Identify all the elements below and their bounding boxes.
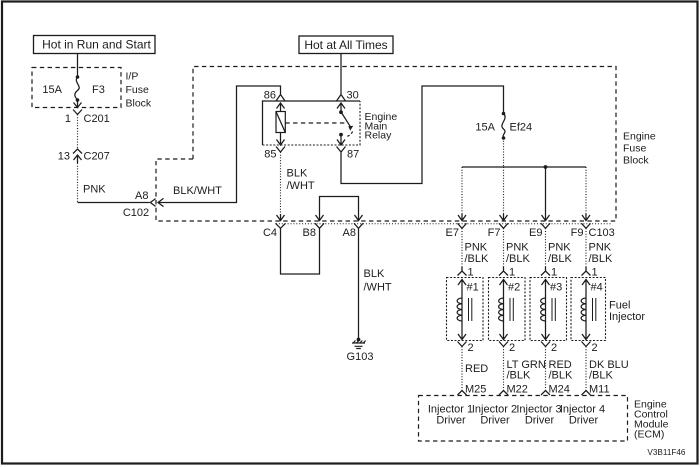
ground G103	[347, 338, 374, 363]
wire BLK/WHT from C102 to relay pin 86	[158, 86, 281, 203]
svg-text:Ef24: Ef24	[510, 122, 533, 134]
wire Hot at All Times to relay pin 30	[340, 54, 342, 95]
fuse Ef24 15A	[475, 112, 532, 140]
svg-text:I/P: I/P	[126, 71, 139, 83]
ECM pins M25 M22 M24 M11	[458, 384, 610, 396]
svg-text:PNK: PNK	[589, 242, 612, 254]
svg-text:Driver: Driver	[569, 415, 599, 427]
arrow into C102 at C4	[277, 214, 285, 221]
jumper wire B8 to A8 above connector	[316, 197, 363, 221]
svg-text:E9: E9	[529, 227, 542, 239]
label Engine Control Module (ECM)	[634, 399, 669, 441]
svg-text:2: 2	[509, 342, 515, 354]
svg-text:Fuse: Fuse	[126, 84, 150, 96]
svg-text:2: 2	[468, 342, 474, 354]
wire C201 to C207	[77, 115, 79, 150]
svg-text:C4: C4	[263, 227, 277, 239]
connector C102 pin C4 socket	[263, 223, 286, 239]
svg-text:#1: #1	[467, 282, 479, 294]
svg-text:Driver: Driver	[480, 415, 510, 427]
svg-text:A8: A8	[343, 227, 356, 239]
svg-text:Hot in Run and Start: Hot in Run and Start	[42, 38, 151, 52]
bus wire	[462, 166, 586, 168]
wire BLK/WHT relay 85 down to C4	[280, 152, 282, 215]
svg-text:PNK: PNK	[465, 242, 488, 254]
svg-text:15A: 15A	[42, 84, 62, 96]
svg-text:/BLK: /BLK	[549, 370, 574, 382]
wire fuse to bus	[503, 138, 505, 167]
svg-text:C201: C201	[84, 113, 110, 125]
svg-text:/WHT: /WHT	[364, 282, 392, 294]
wire drop E9	[542, 167, 550, 221]
I/P Fuse Block box	[32, 68, 152, 110]
svg-text:/BLK: /BLK	[589, 370, 614, 382]
svg-text:15A: 15A	[475, 122, 495, 134]
svg-text:1: 1	[65, 113, 71, 125]
svg-text:/WHT: /WHT	[287, 180, 315, 192]
relay coil	[276, 112, 285, 133]
svg-text:Driver: Driver	[436, 415, 466, 427]
svg-text:PNK: PNK	[548, 242, 571, 254]
svg-text:RED: RED	[465, 363, 488, 375]
svg-text:#3: #3	[550, 282, 562, 294]
svg-text:13: 13	[58, 151, 70, 163]
svg-text:E7: E7	[446, 227, 459, 239]
svg-text:Hot at All Times: Hot at All Times	[304, 38, 387, 52]
svg-text:Driver: Driver	[525, 415, 555, 427]
svg-text:B8: B8	[303, 227, 316, 239]
wire drop E7	[461, 167, 463, 214]
fuel injector #4	[571, 278, 606, 341]
injector pins 1	[458, 267, 598, 279]
svg-text:#2: #2	[508, 282, 520, 294]
connector C102 pin A8 socket (ground path)	[343, 223, 363, 239]
svg-text:C103: C103	[589, 227, 615, 239]
svg-text:/BLK: /BLK	[465, 253, 490, 265]
svg-text:G103: G103	[347, 351, 374, 363]
svg-text:#4: #4	[591, 282, 603, 294]
svg-text:M22: M22	[507, 384, 528, 396]
svg-text:Engine: Engine	[623, 131, 656, 143]
Engine Fuse Block outline	[156, 67, 656, 224]
svg-text:V3B11F46: V3B11F46	[647, 448, 686, 457]
relay pin 87	[337, 135, 360, 161]
svg-text:87: 87	[347, 149, 359, 161]
svg-text:30: 30	[347, 90, 359, 102]
svg-text:/BLK: /BLK	[507, 370, 532, 382]
fuel injector #1	[447, 278, 484, 341]
wire drop F9	[585, 167, 587, 214]
svg-text:Relay: Relay	[365, 130, 393, 142]
relay pin 85	[264, 133, 285, 161]
fuse F3 15A	[42, 75, 104, 107]
svg-text:Fuel: Fuel	[609, 300, 630, 312]
fuel injector #3	[530, 278, 567, 341]
svg-text:1: 1	[551, 267, 557, 279]
svg-text:/BLK: /BLK	[548, 253, 573, 265]
svg-text:2: 2	[551, 342, 557, 354]
svg-text:M25: M25	[465, 384, 486, 396]
relay pin 30 and switch	[337, 90, 359, 137]
fuel injector #2	[489, 278, 526, 341]
svg-text:F3: F3	[92, 84, 105, 96]
svg-text:Fuse: Fuse	[623, 143, 647, 155]
svg-text:85: 85	[264, 149, 276, 161]
svg-text:2: 2	[592, 342, 598, 354]
svg-text:1: 1	[592, 267, 598, 279]
wire drop F7	[503, 167, 505, 214]
svg-text:A8: A8	[135, 190, 148, 202]
wire relay 87 to fuse Ef24	[341, 86, 504, 184]
connector C102 pin A8 (double arrows)	[123, 190, 164, 219]
injector pins 2	[458, 342, 598, 355]
wires injectors to ECM	[462, 347, 629, 391]
svg-text:1: 1	[468, 267, 474, 279]
power tag: Hot at All Times	[299, 36, 393, 54]
wire PNK horizontal	[78, 202, 150, 204]
svg-text:BLK: BLK	[287, 168, 308, 180]
ECM box	[419, 396, 628, 442]
svg-text:Block: Block	[623, 155, 649, 167]
wire PNK vertical	[77, 163, 79, 203]
svg-text:F9: F9	[571, 227, 584, 239]
svg-text:Injector: Injector	[609, 311, 645, 323]
svg-text:C102: C102	[123, 207, 149, 219]
connector C201 pin 1	[65, 110, 110, 126]
relay pin 86	[264, 90, 285, 112]
connector C102 pin B8 socket	[303, 223, 324, 239]
svg-text:(ECM): (ECM)	[634, 429, 664, 441]
connector C103 sockets E7 F7 E9 F9	[446, 223, 615, 239]
svg-text:F7: F7	[488, 227, 501, 239]
svg-text:BLK: BLK	[364, 268, 385, 280]
wire from Hot in Run and Start to fuse F3	[77, 54, 79, 78]
power tag: Hot in Run and Start	[34, 36, 156, 54]
svg-text:M24: M24	[549, 384, 570, 396]
svg-text:/BLK: /BLK	[506, 253, 531, 265]
svg-text:PNK: PNK	[83, 184, 106, 196]
svg-text:86: 86	[264, 90, 276, 102]
junction node	[544, 165, 548, 169]
svg-text:Block: Block	[126, 98, 152, 110]
connector C207 pin 13	[58, 149, 110, 163]
wire BLK/WHT to ground	[358, 228, 360, 339]
wire C4 to B8 below connector	[281, 228, 320, 274]
wires PNK/BLK to injectors	[462, 228, 613, 270]
relay link dashed line	[285, 122, 348, 124]
svg-text:M11: M11	[589, 384, 610, 396]
relay U: Engine Main Relay box	[263, 101, 398, 145]
svg-text:PNK: PNK	[506, 242, 529, 254]
svg-text:BLK/WHT: BLK/WHT	[173, 185, 222, 197]
svg-text:1: 1	[509, 267, 515, 279]
svg-text:C207: C207	[84, 151, 110, 163]
svg-text:/BLK: /BLK	[589, 253, 614, 265]
